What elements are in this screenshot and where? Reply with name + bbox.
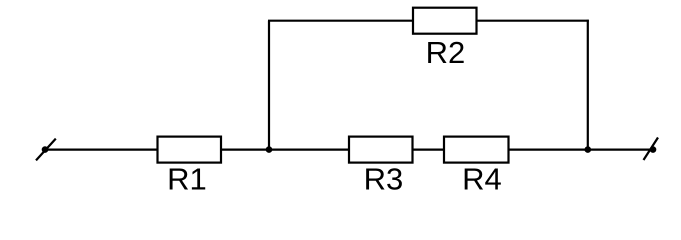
left terminal slash [36, 139, 56, 161]
wire: R3 to R4 [413, 149, 445, 151]
wire: node A rising to top rail [268, 21, 270, 151]
node B junction [585, 146, 592, 153]
wire: right drop to node B [587, 20, 589, 150]
wire: node A to R3 [269, 149, 349, 151]
left terminal node [42, 146, 49, 153]
resistor R4 [444, 137, 509, 163]
wire: R1 to node A [221, 149, 269, 151]
node A junction [266, 146, 273, 153]
wire: node B to right terminal [588, 149, 653, 151]
wire: R4 to node B [509, 149, 588, 151]
wire: left terminal to R1 [45, 149, 158, 151]
wire: top rail to R2 [268, 20, 413, 22]
right terminal node [650, 146, 657, 153]
resistor R1 [158, 137, 222, 163]
right terminal slash [644, 138, 659, 161]
svg-text:R4: R4 [462, 162, 502, 197]
svg-text:R2: R2 [426, 35, 466, 70]
resistor R3 [349, 137, 413, 163]
svg-text:R1: R1 [167, 162, 207, 197]
resistor R2 [413, 8, 477, 34]
svg-text:R3: R3 [364, 162, 404, 197]
wire: R2 to right drop [477, 20, 589, 22]
